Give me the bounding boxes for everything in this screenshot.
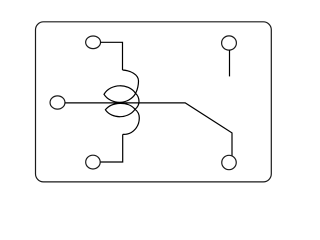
pin 5 (bottom-right contact) <box>222 155 237 169</box>
wire pin1 to coil top <box>101 42 123 70</box>
common wire with armature diagonal to pin 5 <box>65 103 232 156</box>
pin 3 (bottom-left, coil terminal) <box>86 155 101 169</box>
coil entry arc <box>123 70 139 93</box>
coil upper turn (lens) <box>104 86 136 103</box>
coil connector arc <box>135 93 139 109</box>
pin 2 (middle-left, common) <box>50 96 65 109</box>
pin 4 (top-right, open contact) <box>222 36 237 50</box>
coil exit arc <box>123 109 140 134</box>
wire coil bottom to pin 3 <box>100 134 123 162</box>
pin 1 (top-left, coil terminal) <box>86 36 101 49</box>
contact stub from pin 4 <box>229 50 231 76</box>
relay body outline <box>36 22 272 182</box>
coil lower turn (lens) <box>105 103 135 116</box>
